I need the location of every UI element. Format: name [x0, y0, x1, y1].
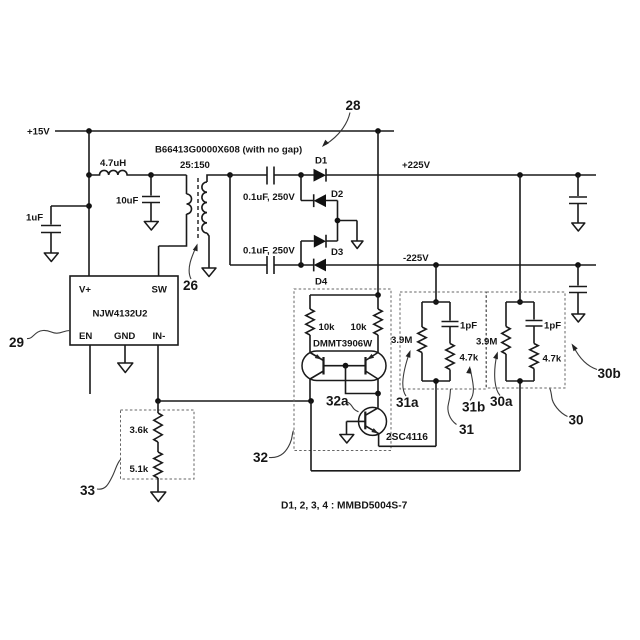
ground (Q2 base): [340, 435, 354, 444]
svg-text:D1: D1: [315, 156, 328, 167]
dashed box 31: [400, 292, 486, 389]
leader 29: [27, 330, 70, 338]
svg-text:30: 30: [569, 413, 584, 428]
junction pump ground node: [335, 218, 341, 224]
svg-text:33: 33: [80, 483, 96, 498]
svg-text:D1, 2, 3, 4 : MMBD5004S-7: D1, 2, 3, 4 : MMBD5004S-7: [281, 501, 408, 512]
dashed box 33: [121, 410, 195, 479]
wire V+ feed vertical x=89: [88, 131, 90, 276]
junction +225V x=520: [517, 172, 523, 178]
wire GND pin: [124, 345, 126, 363]
svg-text:SW: SW: [152, 285, 168, 296]
transistor Q1b bar: [364, 357, 366, 375]
svg-text:V+: V+: [79, 285, 91, 296]
junction collector tie: [375, 391, 381, 397]
svg-text:31a: 31a: [396, 395, 419, 410]
svg-text:1pF: 1pF: [544, 321, 561, 332]
leader 31: [448, 389, 457, 425]
junction top of mirror: [375, 292, 381, 298]
wires resistors to pair: [310, 335, 378, 353]
junction secondary output: [227, 172, 233, 178]
wire to C3: [230, 264, 267, 266]
ground (U1 GND): [118, 363, 133, 373]
diode D1: [301, 169, 596, 182]
svg-text:D3: D3: [331, 247, 343, 258]
diode D3: [301, 235, 338, 248]
wire to C2: [230, 174, 267, 176]
transistor Q1a bar: [322, 357, 324, 375]
wire base to Q1b collector: [346, 366, 379, 394]
svg-text:4.7k: 4.7k: [543, 354, 562, 365]
junction base node: [343, 363, 349, 369]
wire +225V filter stem: [577, 175, 579, 223]
svg-text:EN: EN: [79, 331, 92, 342]
wire Q2 base: [347, 420, 366, 422]
wire node A down to D2: [300, 175, 302, 201]
junction block 31 bottom: [433, 378, 439, 384]
wire divider to ground: [157, 478, 159, 492]
wire D2/D3 common vertical: [337, 201, 339, 242]
svg-text:29: 29: [9, 335, 24, 350]
svg-text:DMMT3906W: DMMT3906W: [313, 339, 373, 350]
wire 10uF stem: [150, 175, 152, 221]
svg-text:1pF: 1pF: [460, 321, 477, 332]
wire secondary top: [207, 175, 230, 182]
resistor R1 3.6k: [154, 413, 162, 442]
svg-text:28: 28: [346, 98, 362, 113]
svg-text:10k: 10k: [319, 322, 336, 333]
wire -225V filter stem: [577, 265, 579, 314]
svg-text:31: 31: [459, 422, 475, 437]
transistor Q2 2SC4116 body: [359, 407, 387, 435]
capacitor C_in 1uF: [41, 226, 61, 233]
wire 1uF branch: [51, 206, 89, 253]
diode D2: [301, 194, 338, 207]
svg-text:32: 32: [253, 450, 268, 465]
wire +15V rail: [55, 130, 394, 132]
leader 30a arrow: [495, 354, 500, 396]
wire loop node to block 30 bottom: [311, 381, 520, 471]
wire IN- to divider: [157, 401, 159, 413]
transformer T1 primary winding: [187, 194, 192, 214]
capacitor C1 10uF: [142, 197, 160, 203]
junction IN- node: [155, 398, 161, 404]
transistor pair Q1 DMMT3906W body (stadium): [302, 351, 386, 381]
svg-text:3.6k: 3.6k: [130, 425, 149, 436]
svg-text:25:150: 25:150: [180, 160, 210, 171]
wire node to lower branch x=230: [229, 175, 231, 265]
junction block 30 top: [517, 299, 523, 305]
junction on +15V rail at x=89: [86, 128, 92, 134]
ground (1uF): [44, 253, 58, 262]
svg-text:GND: GND: [114, 331, 135, 342]
wire primary bottom to SW: [159, 214, 187, 276]
resistor R3 10k (left): [306, 309, 314, 335]
svg-text:30b: 30b: [598, 366, 621, 381]
svg-text:31b: 31b: [462, 400, 485, 415]
wire block 30 top bar: [506, 302, 534, 327]
wire secondary bottom stem: [207, 233, 209, 268]
wire +15V feed to block 32: [377, 131, 379, 295]
wire mirror top bar: [310, 295, 378, 309]
svg-text:0.1uF, 250V: 0.1uF, 250V: [243, 246, 295, 257]
svg-text:D4: D4: [315, 277, 328, 288]
wire C6 to R6: [449, 327, 451, 344]
wire C7 to R8: [533, 326, 535, 344]
junction +225V x=578: [575, 172, 581, 178]
capacitor C3 0.1uF 250V: [267, 256, 274, 274]
node B junction: [298, 262, 304, 268]
wire block 31 top bar: [422, 302, 450, 327]
wire C2 to node A: [275, 174, 302, 176]
op-amp/controller U1 NJW4132U2 body: [70, 276, 178, 345]
svg-text:NJW4132U2: NJW4132U2: [93, 309, 148, 320]
dashed box 30: [487, 292, 566, 388]
capacitor C6 1pF: [442, 322, 459, 327]
junction block 30 bottom: [517, 378, 523, 384]
svg-text:30a: 30a: [490, 394, 513, 409]
diode D4: [301, 259, 596, 272]
wire Q2 base to ground: [346, 421, 348, 434]
wire emitter to block 31 bottom: [379, 381, 436, 446]
junction 4.7uH tap: [86, 172, 92, 178]
resistor R2 5.1k: [154, 452, 162, 478]
svg-text:10k: 10k: [351, 322, 368, 333]
svg-text:32a: 32a: [326, 394, 349, 409]
ground (10uF): [144, 222, 158, 231]
svg-text:+15V: +15V: [27, 127, 50, 138]
svg-text:1uF: 1uF: [26, 213, 43, 224]
svg-text:+225V: +225V: [402, 160, 431, 171]
svg-text:10uF: 10uF: [116, 196, 139, 207]
wire node B up to D3: [300, 241, 302, 265]
capacitor C2 0.1uF 250V: [267, 167, 274, 185]
transistor Q1a collector: [310, 371, 324, 401]
leader 32a: [347, 402, 359, 412]
wire between divider resistors: [157, 442, 159, 452]
ground (pump diodes): [352, 241, 364, 249]
svg-text:0.1uF, 250V: 0.1uF, 250V: [243, 192, 295, 203]
capacitor C4 (+225V filter): [569, 197, 587, 204]
ground (-225V filter): [572, 314, 585, 322]
leader 32: [269, 431, 294, 458]
wire Q2 emitter down: [378, 434, 380, 447]
junction 1uF tap: [86, 203, 92, 209]
capacitor C7 1pF: [526, 321, 543, 327]
wire block 30 bottom bar: [506, 354, 534, 381]
svg-text:D2: D2: [331, 189, 343, 200]
wire block 31 bottom bar: [422, 353, 450, 382]
ground (secondary): [202, 268, 216, 277]
ground (divider): [151, 492, 166, 502]
svg-text:IN-: IN-: [153, 331, 166, 342]
junction on +15V rail at x=378: [375, 128, 381, 134]
resistor R8 4.7k: [530, 344, 538, 369]
svg-text:5.1k: 5.1k: [130, 464, 149, 475]
wire shared bases: [324, 365, 366, 367]
transistor Q1a emitter (arrow to base): [310, 353, 324, 361]
transformer T1 core: [197, 178, 199, 238]
transistor Q1b collector: [366, 371, 379, 394]
svg-text:3.9M: 3.9M: [391, 335, 412, 346]
wire +225V feed to block 30: [519, 175, 521, 302]
wire to Q2 collector: [377, 394, 379, 408]
svg-text:B66413G0000X608 (with no gap): B66413G0000X608 (with no gap): [155, 145, 302, 156]
svg-text:4.7k: 4.7k: [460, 353, 479, 364]
node A junction: [298, 172, 304, 178]
wire IN- pin: [157, 345, 159, 401]
transformer T1 secondary winding: [202, 182, 207, 233]
resistor R6 4.7k: [446, 344, 454, 370]
leader 31b arrow: [470, 369, 473, 401]
svg-text:4.7uH: 4.7uH: [100, 158, 126, 169]
wire C3 to node B: [275, 264, 302, 266]
wire pump ground: [338, 221, 358, 242]
svg-text:-225V: -225V: [403, 253, 429, 264]
junction block 32 input node: [308, 398, 314, 404]
dashed box 32: [294, 289, 391, 451]
resistor R7 3.9M: [502, 327, 510, 355]
junction block 31 top: [433, 299, 439, 305]
ground (+225V filter): [572, 223, 585, 231]
inductor L1 4.7uH: [89, 170, 151, 175]
transistor Q1b emitter (arrow to base): [366, 353, 379, 361]
transistor Q2 bar: [364, 412, 366, 430]
svg-text:3.9M: 3.9M: [476, 337, 497, 348]
leader 33: [97, 460, 121, 490]
wire -225V feed to block 31: [435, 265, 437, 302]
transistor Q2 collector: [365, 408, 378, 416]
resistor R5 3.9M: [418, 327, 426, 353]
junction -225V x=436: [433, 262, 439, 268]
svg-text:2SC4116: 2SC4116: [386, 432, 428, 443]
wire IN- node to block 32: [158, 400, 311, 402]
resistor R4 10k (right): [374, 309, 382, 335]
junction -225V x=578: [575, 262, 581, 268]
junction 10uF tap: [148, 172, 154, 178]
wire EN pin stub: [89, 345, 91, 394]
leader 28 arrow: [326, 113, 351, 145]
leader 30: [550, 389, 568, 417]
leader 30b arrow: [574, 347, 598, 370]
transistor Q2 emitter: [365, 426, 378, 434]
svg-text:26: 26: [183, 278, 199, 293]
wire to primary top: [151, 175, 187, 194]
leader 26 arrow: [189, 246, 196, 279]
leader 31a arrow: [403, 353, 410, 397]
capacitor C5 (-225V filter): [569, 287, 587, 293]
